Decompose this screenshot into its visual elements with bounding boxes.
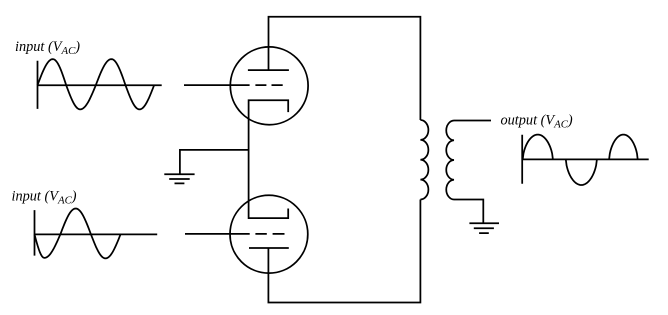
- svg-text:input (VAC): input (VAC): [15, 39, 80, 57]
- svg-text:input (VAC): input (VAC): [12, 189, 77, 207]
- svg-text:output (VAC): output (VAC): [501, 113, 573, 131]
